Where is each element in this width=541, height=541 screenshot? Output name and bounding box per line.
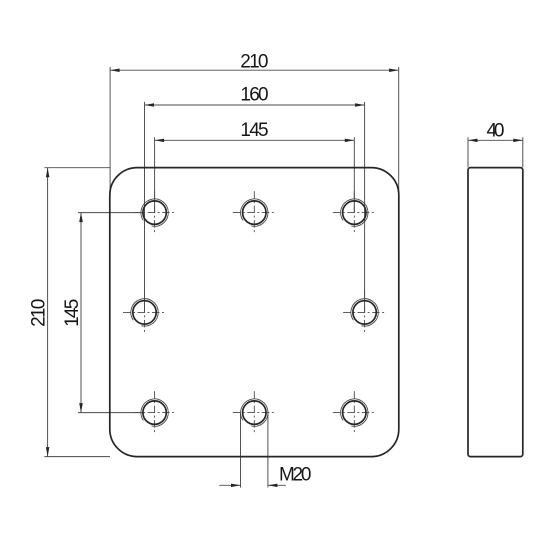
- svg-text:160: 160: [240, 85, 268, 106]
- svg-text:210: 210: [28, 299, 49, 327]
- svg-text:145: 145: [240, 120, 268, 141]
- svg-text:40: 40: [487, 121, 505, 142]
- svg-text:M20: M20: [279, 465, 312, 486]
- svg-text:210: 210: [240, 51, 268, 72]
- svg-text:145: 145: [62, 299, 83, 327]
